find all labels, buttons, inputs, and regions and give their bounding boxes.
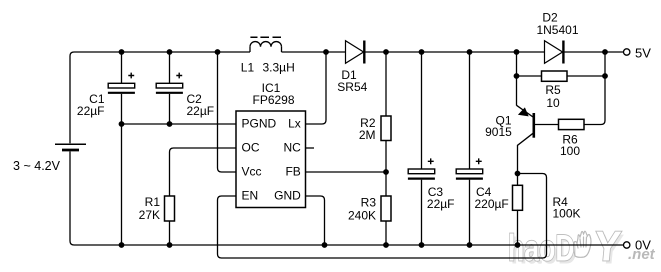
wire battery negative to bottom rail [70, 152, 74, 246]
wire 5V column to R6 [584, 52, 605, 125]
wire R4 bottom lead [517, 210, 519, 245]
wire NC pin stub [306, 147, 315, 149]
wire bottom rail 0V net [74, 244, 624, 246]
wire R5 left lead [517, 75, 542, 77]
capacitor C4 [456, 158, 483, 178]
wire C1 top lead [121, 52, 123, 83]
wire C4 bottom lead [469, 180, 471, 245]
wire FB pin to divider node [306, 171, 387, 173]
wire R5 right lead [567, 75, 605, 77]
svg-text:EN: EN [242, 189, 259, 203]
wire R1 bottom lead [169, 221, 171, 245]
capacitor C2 [156, 73, 183, 93]
wire top rail L1 to D1 [282, 51, 346, 53]
svg-text:OC: OC [242, 141, 260, 155]
wire PGND rail to pin PGND [122, 123, 237, 125]
wire node A to Q1 emitter [516, 76, 518, 106]
svg-text:0V: 0V [635, 238, 651, 253]
diode D2 1N5401 [545, 41, 564, 64]
wire GND pin to bottom rail [306, 196, 325, 245]
svg-text:240K: 240K [348, 209, 376, 223]
wire battery positive feed and top-left corner [70, 52, 250, 143]
svg-text:NC: NC [283, 141, 301, 155]
resistor R4 body [513, 185, 523, 210]
wire R2 bottom lead to FB node [385, 141, 387, 173]
svg-text:22µF: 22µF [427, 197, 455, 211]
svg-text:220µF: 220µF [475, 197, 509, 211]
svg-text:Lx: Lx [288, 117, 301, 131]
wire C2 top lead [169, 52, 171, 83]
svg-text:1N5401: 1N5401 [536, 23, 578, 37]
svg-text:10: 10 [546, 96, 560, 110]
battery B1 3~4.2V [55, 144, 86, 150]
svg-text:R3: R3 [361, 195, 377, 209]
svg-text:FB: FB [285, 165, 300, 179]
resistor R2 body [381, 116, 391, 141]
wire top rail D2 to 5V terminal [563, 51, 623, 53]
svg-text:FP6298: FP6298 [252, 93, 294, 107]
terminal 0V [624, 242, 630, 248]
wire EN loop to transistor collector node [218, 174, 547, 259]
wire Lx pin to top rail [306, 52, 327, 124]
transistor Q1 9015 [517, 105, 534, 173]
svg-text:5V: 5V [635, 46, 651, 61]
resistor R6 body [559, 119, 585, 129]
svg-text:GND: GND [274, 189, 301, 203]
wire C2 bottom lead to PGND rail [169, 94, 171, 124]
svg-text:PGND: PGND [242, 117, 277, 131]
wire Q1 base to R6 [535, 124, 559, 126]
op-amp IC1 FP6298 box [236, 111, 306, 208]
svg-text:3 ~ 4.2V: 3 ~ 4.2V [13, 158, 60, 173]
resistor R5 body [542, 71, 568, 81]
wire R3 top lead [385, 172, 387, 196]
wire R3 bottom lead [385, 221, 387, 245]
svg-text:L1: L1 [241, 60, 255, 74]
capacitor C1 [108, 73, 135, 93]
svg-text:22µF: 22µF [187, 104, 215, 118]
svg-text:Y: Y [592, 222, 623, 270]
watermark haoDIY.net [508, 222, 656, 272]
wire C3 bottom lead [421, 180, 423, 245]
svg-text:3.3µH: 3.3µH [263, 60, 295, 74]
svg-text:100: 100 [560, 144, 580, 158]
wire C1 bottom lead to bottom rail [121, 94, 123, 245]
capacitor C3 [408, 158, 435, 178]
svg-text:9015: 9015 [485, 125, 512, 139]
wire top rail D1 to D2 [364, 51, 544, 53]
svg-text:22µF: 22µF [77, 104, 105, 118]
svg-text:Vcc: Vcc [242, 165, 262, 179]
svg-text:100K: 100K [553, 207, 581, 221]
node A switcher output column [516, 52, 518, 76]
wire R4 top lead [517, 174, 519, 186]
diode D1 SR54 [346, 41, 365, 64]
resistor R1 body [165, 196, 175, 221]
wire R2 top lead [385, 52, 387, 116]
svg-text:2M: 2M [359, 128, 376, 142]
wire C3 top lead [421, 52, 423, 169]
wire Vcc feed from top rail [218, 52, 237, 172]
terminal 5V [624, 49, 630, 55]
svg-text:SR54: SR54 [337, 80, 367, 94]
resistor R3 body [381, 196, 391, 221]
svg-text:27K: 27K [139, 208, 160, 222]
wire C4 top lead [469, 52, 471, 169]
wire OC to R1 top [170, 148, 237, 196]
inductor L1 coil [250, 37, 282, 52]
